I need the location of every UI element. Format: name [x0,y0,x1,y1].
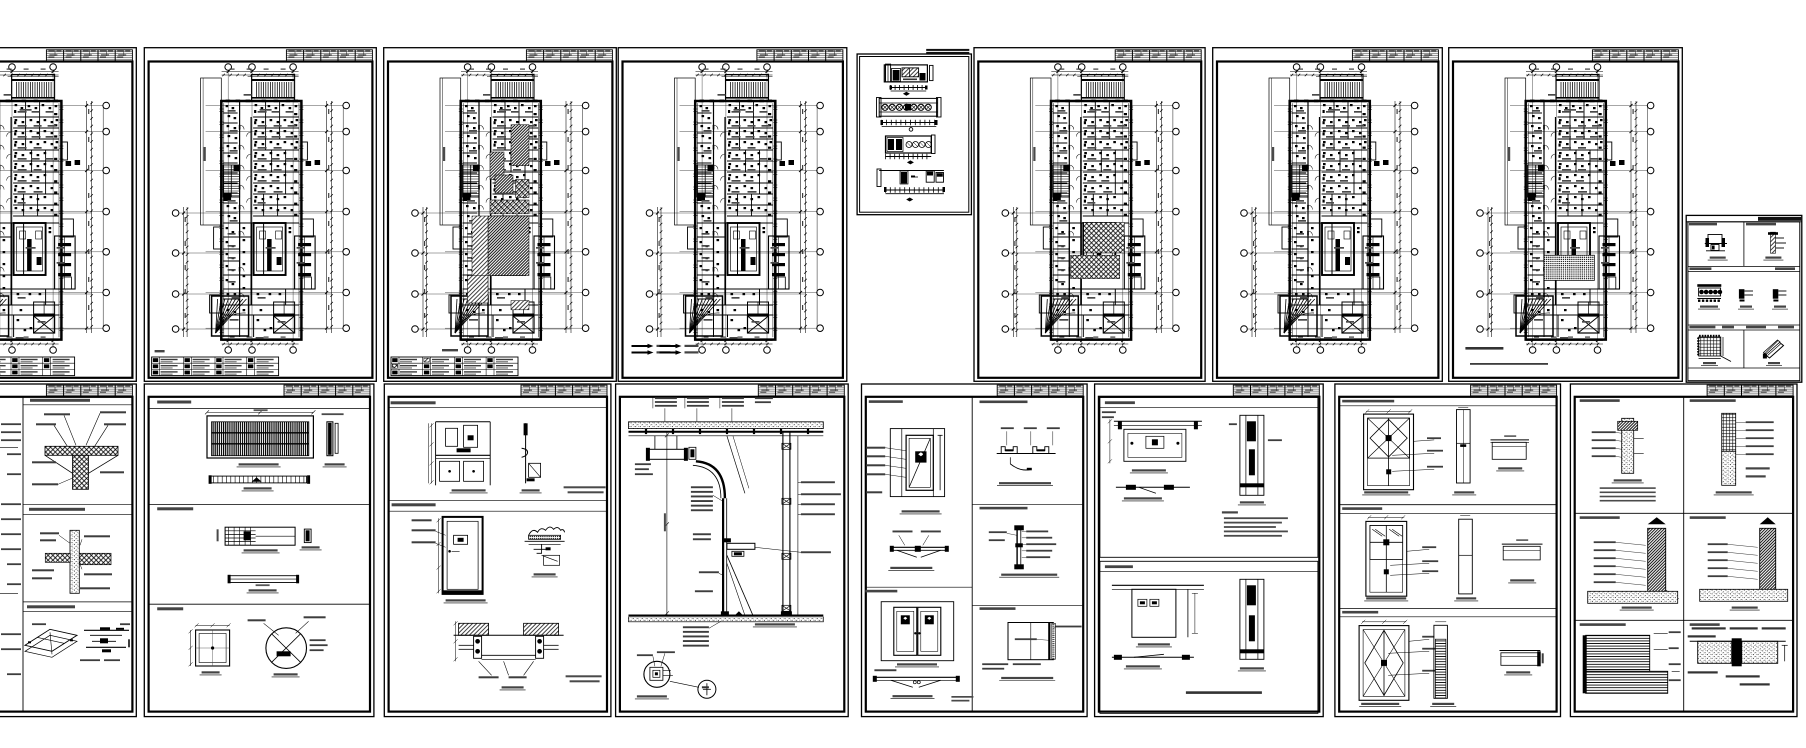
B2 section title 2 [389,500,607,511]
B2 roof profile detail [525,527,565,577]
B6 side panel 2 [1454,515,1478,601]
B4 panel seam detail [982,623,1081,681]
B3 hanger assembly [635,436,696,475]
B1 access panel circle detail [248,616,328,677]
S4 elevation detail 2 [877,98,942,132]
sheet S7 frame [1449,48,1683,382]
legend table S0 [0,350,75,376]
B4 single door elevation [866,429,944,514]
sheet S0 frame [0,48,136,382]
sheet S3 frame [618,48,847,382]
B4 right divider 1 + title 2 [972,505,1083,510]
sheet S2 frame [384,48,617,382]
B4 double door elevation [881,602,954,667]
B1 grille bottom bar [209,475,311,491]
B1 grille side view [322,413,347,467]
B3 below-floor annotations [683,621,721,646]
B3 left dim line [664,432,669,616]
B2 washbasin front elevation [429,422,491,493]
B6 glazed door 1 [1362,409,1443,495]
stippled room S7 [1465,255,1594,365]
B3 bottom-left anchor detail [635,651,675,699]
sheet B0 frame [0,384,136,717]
sheet S4 frame [857,49,971,215]
B0 vertical divider [22,397,24,712]
B0 section1 ceiling tee detail [23,399,132,490]
floor plan S6 [1241,64,1418,354]
B3 floor band [629,611,824,627]
S4 elevation detail 3 [886,135,936,164]
sheet B2 frame [384,384,611,717]
sheet B6 frame [1335,384,1561,717]
B4 hat channel profiles [997,427,1060,485]
B6 bar detail 2 [1502,539,1543,583]
B7 cove skirting detail left [1588,517,1678,610]
B0 section2 wall join detail [23,504,132,593]
S4 elevation detail 1 [884,64,933,96]
sheet B3 frame [616,384,849,717]
B3 center annotations [691,486,723,592]
legend table S1 [152,350,279,376]
S8 detail r1c1 [1705,235,1728,261]
B6 section titles and dividers [1339,400,1556,617]
B5 sliding door elevation [1112,585,1204,647]
B4 left title 2 [865,587,972,592]
hatched rooms S2 [468,125,530,310]
B1 air-tight lamp plan [217,527,322,553]
sheet B4 frame [862,384,1088,717]
B6 bar detail 1 [1491,435,1530,471]
B7 brick wall detail [1714,413,1774,495]
sheet B5 frame [1095,384,1324,717]
B7 grid dividers [1575,397,1793,712]
B5 door plan bar 1 [1116,485,1190,501]
B4 left title 1 [869,400,903,403]
B4 right divider 2 + title 3 [972,605,1083,610]
B5 mullion detail 2 [1238,579,1266,671]
B0 section3 floor panel detail [23,602,132,661]
B4 column divider [971,397,973,712]
S8 detail r3c1 grid slab [1697,335,1731,366]
S8 detail r2c3 [1772,289,1788,309]
S8 detail r2c1 [1697,284,1722,309]
floor plan S1 [172,64,349,354]
B1 access panel square [189,623,231,675]
B5 subframe 2 [1100,561,1318,713]
B4 door install section bar [888,531,949,571]
B7 pvc floor detail right [1700,517,1788,610]
B4 right title 1 [980,401,1028,404]
B5 mullion detail 1 [1229,415,1282,505]
floor plan S3 [646,64,823,354]
floor plan S2 [412,64,589,354]
sheet S1 frame [144,48,376,382]
B3 mid junction bar [723,538,755,615]
B1 lamp section bar [228,575,300,593]
B3 top annotation labels [653,396,773,421]
B6 grate panel 3 [1430,622,1456,707]
B1 air grille front [205,409,315,467]
B1 section title 2 [149,505,370,511]
B6 side panel 1 [1452,407,1476,495]
B4 wall joint vertical [989,525,1059,577]
B6 bar detail 3 [1500,651,1544,675]
floor plan S7 [1477,64,1654,354]
B7 floor junction detail [1688,627,1788,685]
sheet S8 frame [1686,215,1802,382]
B3 ceiling slab band [629,422,824,436]
B2 door jamb section [454,621,602,690]
B0 left column remnants [0,423,21,675]
B2 washbasin side profile [520,423,606,493]
S4 elevation detail 4 [877,169,945,202]
floor plan S5 [1002,64,1179,354]
B2 airtight door elevation [412,517,488,603]
sheet S5 frame [974,48,1205,382]
B1 section title 3 [149,604,370,610]
B5 bottom note [1186,691,1262,694]
B5 notes block [1222,511,1288,536]
B3 right tall panel [782,432,798,616]
B7 steel platform detail [1583,631,1681,693]
legend table S2 [391,349,518,376]
S8 detail r2c2 [1738,289,1754,309]
sheet B7 frame [1570,384,1797,717]
sheet B1 frame [144,384,374,717]
B3 curved cove panel [693,436,749,616]
B3 small circled detail [670,680,716,698]
S8 detail r1c2 [1763,232,1786,260]
B1 section title 1 [149,401,370,409]
sheet S6 frame [1213,48,1443,382]
crosshatch patches S5 [1071,223,1125,279]
B6 x-braced door 3 [1359,620,1436,707]
B2 section title 1 [389,401,607,407]
B5 subframe 1 [1100,397,1318,557]
B3 right annotations [755,481,841,553]
B6 glazed door 2 [1364,515,1438,601]
B5 sliding door plan bar [1112,654,1194,669]
B4 double door section bar [873,669,974,701]
floor plan S0 [0,64,110,354]
B5 door header detail [1102,411,1202,473]
B7 anchor wall detail [1592,418,1656,501]
evacuation legend S3 [632,344,699,355]
S8 detail r3c2 escalator [1763,340,1784,366]
